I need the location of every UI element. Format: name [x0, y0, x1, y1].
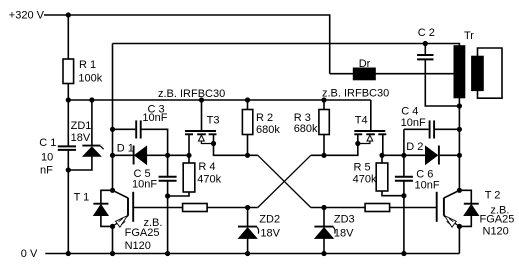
svg-text:T 1: T 1 — [74, 191, 90, 203]
node 0V rail — [21, 248, 38, 260]
svg-text:ZD1: ZD1 — [71, 120, 92, 132]
zener diode ZD2 18V — [238, 208, 281, 254]
diode T2 freewheel — [459, 190, 478, 226]
svg-text:D 1: D 1 — [117, 142, 134, 154]
label z.B. IRFBC30 (left) — [158, 88, 225, 100]
transformer Tr primary winding — [454, 30, 474, 97]
transistor T4 (MOSFET z.B. IRFBC30) — [354, 100, 386, 155]
resistor T1 gate (unlabeled) — [183, 204, 258, 212]
svg-text:R 1: R 1 — [79, 59, 96, 71]
svg-text:FGA25: FGA25 — [125, 227, 160, 239]
svg-text:z.B. IRFBC30: z.B. IRFBC30 — [322, 88, 389, 100]
junction C2 top on drive rail — [423, 41, 428, 46]
svg-text:470k: 470k — [353, 173, 377, 185]
svg-text:ZD2: ZD2 — [259, 214, 280, 226]
junction T2 collector — [457, 188, 462, 193]
svg-text:0 V: 0 V — [21, 248, 38, 260]
svg-text:C 4: C 4 — [401, 105, 418, 117]
svg-text:18V: 18V — [334, 228, 354, 240]
diode D2 — [404, 141, 460, 165]
wire upper drive rail to transformer — [113, 44, 460, 47]
svg-text:10nF: 10nF — [401, 117, 426, 129]
junction C6 / R5 bottom — [401, 193, 406, 198]
junction 0V / ZD3 — [321, 251, 326, 256]
junction R3 bottom — [321, 153, 326, 158]
svg-text:T3: T3 — [207, 114, 220, 126]
capacitor C1 10nF — [39, 100, 76, 254]
junction C5 top — [165, 153, 170, 158]
resistor R1 100k — [63, 15, 103, 100]
junction rail / R1-C1 — [66, 97, 71, 102]
svg-text:10nF: 10nF — [142, 112, 167, 124]
capacitor C5 10nF — [132, 155, 177, 253]
junction 0V / C6-R5 — [401, 251, 406, 256]
junction R2 bottom / T3 source / crossover — [245, 153, 250, 158]
capacitor C2 — [417, 27, 459, 106]
junction D2 anode / C6 — [401, 153, 406, 158]
resistor R4 470k — [168, 155, 222, 196]
svg-text:Tr: Tr — [464, 30, 474, 42]
svg-text:10: 10 — [41, 151, 53, 163]
junction rail / ZD1 — [89, 97, 94, 102]
wire T4 drain to D2 — [383, 154, 404, 156]
svg-text:z.B. IRFBC30: z.B. IRFBC30 — [158, 88, 225, 100]
capacitor C4 10nF — [401, 105, 460, 155]
diode T1 freewheel — [93, 190, 112, 226]
junction T3 gate on rail — [199, 97, 204, 102]
transistor T3 (MOSFET z.B. IRFBC30) — [185, 100, 258, 155]
junction 0V / C5-R4 — [165, 251, 170, 256]
junction C1 / ZD1 bottom wire — [66, 167, 71, 172]
svg-text:N120: N120 — [483, 226, 509, 238]
svg-text:470k: 470k — [197, 173, 221, 185]
svg-text:R 4: R 4 — [198, 161, 215, 173]
svg-text:FGA25: FGA25 — [480, 214, 515, 226]
resistor R2 680k — [242, 100, 280, 155]
inductor Dr (choke) — [330, 58, 455, 80]
wire crossover diagonal B (T1 gate to T4 source) — [258, 155, 311, 207]
svg-text:D 2: D 2 — [406, 141, 423, 153]
capacitor C3 10nF — [113, 103, 168, 155]
svg-text:100k: 100k — [78, 72, 102, 84]
junction ZD3 / T2 gate — [321, 205, 326, 210]
junction R2 top on rail — [245, 97, 250, 102]
wire +320V top rail — [44, 15, 330, 74]
transistor T2 (IGBT z.B. FGA25N120) — [437, 190, 515, 254]
svg-text:ZD3: ZD3 — [334, 214, 355, 226]
svg-text:680k: 680k — [294, 123, 318, 135]
junction T4 substrate / source — [355, 141, 360, 146]
zener diode ZD1 18V — [68, 100, 103, 170]
svg-text:10nF: 10nF — [415, 180, 440, 192]
junction 0V / ZD2 — [245, 251, 250, 256]
svg-text:nF: nF — [40, 165, 53, 177]
svg-text:18V: 18V — [260, 228, 280, 240]
junction T1 emitter — [110, 224, 115, 229]
svg-text:680k: 680k — [256, 124, 280, 136]
svg-text:Dr: Dr — [359, 58, 371, 70]
junction 0V / T1 emitter — [110, 251, 115, 256]
junction D2 cathode / T2 collector net — [457, 153, 462, 158]
svg-text:R 2: R 2 — [256, 112, 273, 124]
wire T2 gate drive — [311, 207, 365, 209]
junction R4 / T3 drain — [186, 153, 191, 158]
transformer Tr secondary winding — [472, 48, 502, 98]
junction T1 collector — [110, 188, 115, 193]
svg-text:+320 V: +320 V — [9, 10, 45, 22]
wire gate-supply rail (z.B. IRFBC30 net) — [68, 99, 371, 101]
junction T2 emitter — [457, 224, 462, 229]
wire T4 source to crossover — [311, 135, 358, 155]
junction C4 right — [457, 127, 462, 132]
svg-text:C 1: C 1 — [39, 137, 56, 149]
svg-text:T4: T4 — [355, 114, 368, 126]
wire T2 collector net vertical — [458, 98, 460, 191]
node +320V supply label — [9, 10, 45, 22]
svg-text:N120: N120 — [125, 240, 151, 252]
resistor T2 gate (unlabeled) — [365, 204, 436, 212]
wire crossover diagonal A (T3 source to T2 gate) — [258, 155, 311, 207]
zener diode ZD3 18V — [314, 208, 354, 254]
wire T1 gate drive — [134, 207, 183, 209]
junction R1 top on +320V rail — [66, 12, 71, 17]
svg-text:C 6: C 6 — [416, 168, 433, 180]
label z.B. IRFBC30 (right) — [322, 88, 389, 100]
svg-text:R 5: R 5 — [354, 161, 371, 173]
capacitor C6 10nF — [395, 155, 440, 253]
junction C5 / R4 bottom — [165, 193, 170, 198]
svg-text:T 2: T 2 — [485, 190, 501, 202]
junction 0V / C1 — [66, 251, 71, 256]
junction D1 cathode net — [110, 153, 115, 158]
svg-text:10nF: 10nF — [132, 179, 157, 191]
diode D1 — [113, 142, 190, 164]
svg-text:C 2: C 2 — [418, 27, 435, 39]
junction C2 bypass / primary bottom — [457, 103, 462, 108]
junction T3 substrate / source — [211, 141, 216, 146]
wire left half-bridge vertical (T1 collector net) — [112, 44, 114, 191]
wire 0V rail — [45, 253, 459, 255]
resistor R5 470k — [353, 155, 404, 195]
junction R5 top / T4 drain — [379, 153, 384, 158]
transistor T1 (IGBT z.B. FGA25N120) — [74, 190, 163, 253]
junction ZD2 / T1 gate — [245, 205, 250, 210]
junction C3 left — [110, 127, 115, 132]
junction R3 top on rail — [321, 97, 326, 102]
resistor R3 680k — [294, 100, 330, 155]
svg-text:18V: 18V — [71, 132, 91, 144]
